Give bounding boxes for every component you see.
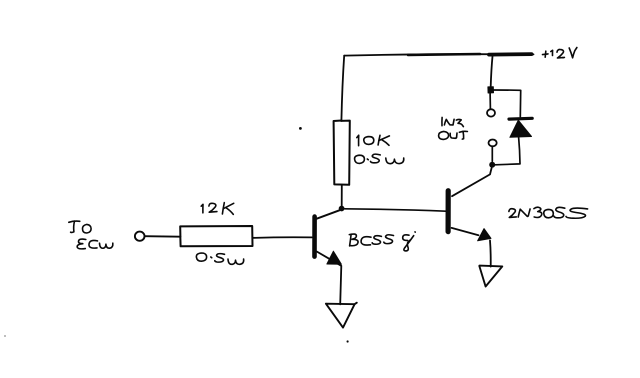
ground (Q2 emitter) [479,266,502,287]
diode D1 body [510,120,532,137]
wire node B to diode [493,90,520,117]
wire R 12K to Q1 base [252,236,312,239]
node A junction [339,206,345,212]
label 0.5W rating (12K) [196,253,243,264]
wire diode to node C [495,137,520,165]
transistor Q2 emitter wire [452,228,491,267]
label 2N3055 [509,207,588,218]
wire Q2 collector [452,168,492,196]
wire node A to Q2 base [345,209,446,211]
transistor Q1 PNP emitter arrow [327,251,342,264]
wire terminal to R 12K [145,235,181,238]
transistor Q1 emitter wire [317,252,341,305]
wire Q1 collector [317,210,340,218]
wire R 10K to node A [341,185,343,206]
node B junction [488,87,494,93]
transistor Q2 NPN emitter arrow [478,229,491,241]
ink speck [299,127,302,130]
label 0.5W rating (10K) [355,154,404,164]
terminal INS OUT lower [489,140,497,147]
wire rail to R 10K [341,56,344,121]
label INS OUT [439,117,468,139]
label BC558 [349,232,415,251]
label TO ECU [69,221,113,249]
terminal INS OUT upper [487,109,495,116]
transistor Q1 BC558 base bar [312,217,317,257]
wire contact to node C [491,146,493,161]
diode D1 cathode bar [509,117,532,121]
resistor 12K 0.5W body [180,226,252,246]
wire node B to contact [489,93,491,109]
label +12V net [543,48,577,59]
transistor Q2 2N3055 base bar [446,191,451,232]
node C junction [489,162,495,168]
ground (Q1 emitter) [326,303,357,328]
ink speck [4,335,6,337]
terminal to ECU [135,232,145,241]
resistor 10K 0.5W body [334,121,350,185]
wire +12V supply rail [344,54,533,56]
label 10K value [357,135,390,146]
wire rail to contact [491,55,493,87]
ink speck [347,340,349,342]
label 12K value [201,203,234,215]
